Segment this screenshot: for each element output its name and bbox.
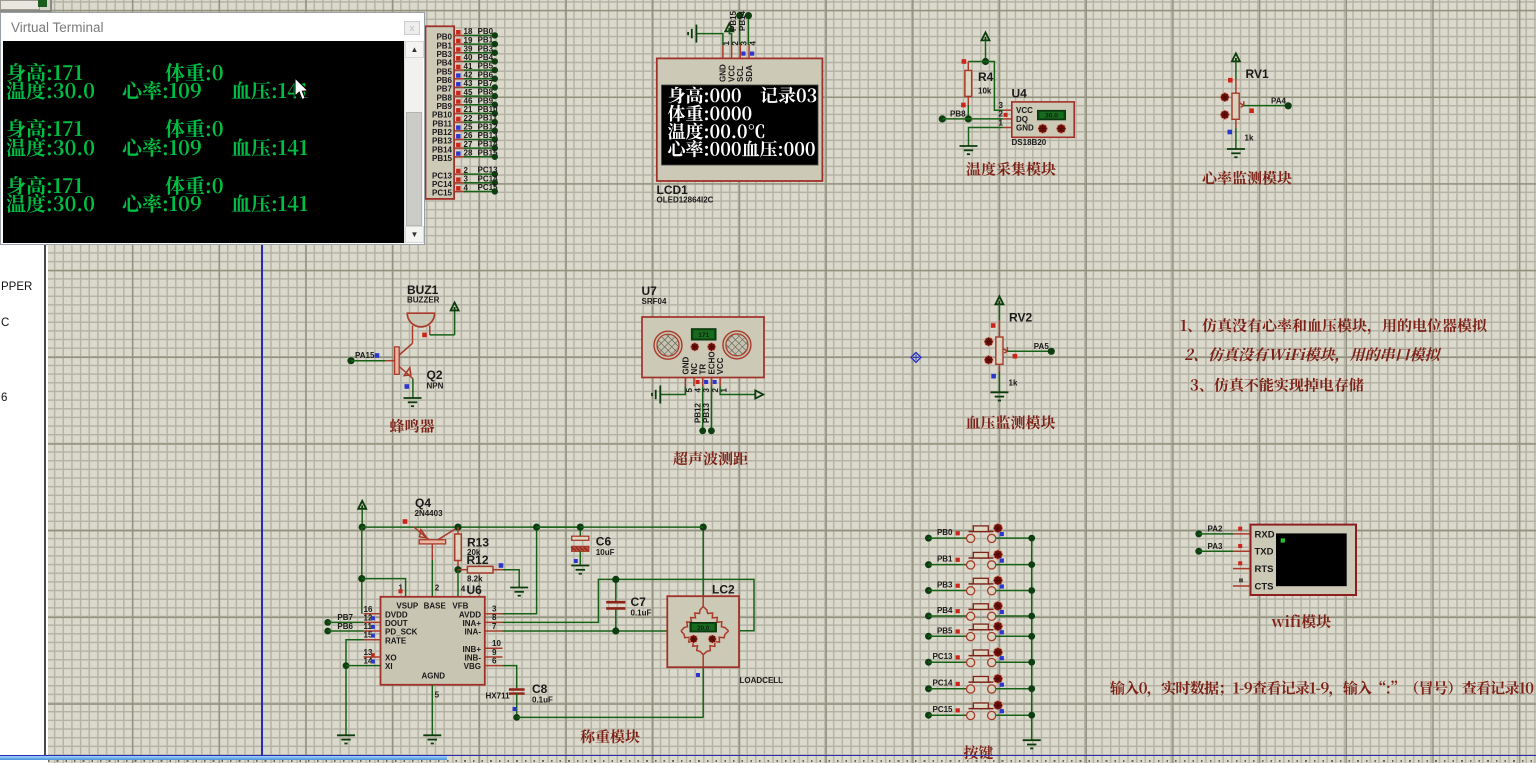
svg-text:RTS: RTS — [1255, 564, 1274, 575]
LCD1 pin 3 SCL — [736, 41, 749, 83]
svg-text:PB11: PB11 — [432, 119, 452, 128]
svg-text:10: 10 — [492, 639, 501, 648]
U6 pin16 DVDD — [364, 605, 381, 614]
svg-text:DVDD: DVDD — [385, 610, 408, 619]
svg-text:PB13: PB13 — [432, 137, 453, 146]
U6 pin13 XO — [364, 648, 381, 657]
capacitor C8 — [509, 682, 553, 717]
svg-text:心率监测模块: 心率监测模块 — [1202, 168, 1292, 189]
U6 pin9 INB- — [485, 648, 503, 657]
svg-text:PB5: PB5 — [478, 62, 494, 71]
blue indicator LC2 — [696, 673, 700, 677]
svg-text:蜂鸣器: 蜂鸣器 — [390, 416, 435, 437]
wire rail to R4 top — [968, 61, 985, 63]
dotted grid strip — [48, 760, 1536, 762]
svg-text:RV1: RV1 — [1246, 67, 1269, 81]
svg-text:PC14: PC14 — [932, 679, 953, 688]
U6 pin12 DOUT PB7 — [324, 613, 380, 626]
wire PB8 — [939, 110, 1003, 123]
svg-text:BASE: BASE — [424, 601, 447, 610]
svg-text:PC14: PC14 — [432, 180, 453, 189]
terminal screen — [3, 41, 406, 243]
svg-text:20.0: 20.0 — [697, 625, 710, 632]
svg-text:VBG: VBG — [464, 662, 481, 671]
svg-text:TXD: TXD — [1255, 547, 1274, 558]
U6 pin3 AVDD — [485, 527, 537, 614]
LCD1 reference label — [657, 183, 714, 205]
svg-text:VSUP: VSUP — [396, 601, 418, 610]
ground R12 — [510, 588, 528, 596]
svg-text:PB10: PB10 — [432, 111, 453, 120]
U7 knob left — [691, 343, 699, 351]
svg-text:5: 5 — [435, 691, 440, 700]
svg-text:PB3: PB3 — [478, 44, 494, 53]
ground RV1 — [1227, 149, 1245, 157]
resistor R12 — [458, 553, 503, 584]
svg-text:PA15: PA15 — [355, 351, 375, 360]
close button — [404, 21, 420, 35]
svg-text:记录03: 记录03 — [760, 82, 817, 108]
blue indicator U7 TR — [704, 380, 708, 384]
svg-text:2N4403: 2N4403 — [415, 509, 444, 518]
svg-text:0.1uF: 0.1uF — [532, 696, 553, 705]
U7 SRF04 body — [642, 317, 764, 378]
U6 pin10 INB+ — [485, 639, 503, 649]
svg-text:GND: GND — [1016, 124, 1034, 133]
svg-text:INA-: INA- — [465, 628, 482, 637]
svg-text:ECHO: ECHO — [707, 351, 716, 374]
svg-text:PB0: PB0 — [436, 33, 452, 42]
svg-text:PB8: PB8 — [478, 88, 494, 97]
RV2 adjust knob down — [984, 356, 993, 365]
svg-text:心率:000血压:000: 心率:000血压:000 — [668, 136, 816, 162]
transistor Q4 2N4403 — [414, 496, 458, 544]
blue indicator C8 — [513, 707, 517, 711]
note 2 — [1184, 344, 1442, 365]
ground buzzer — [404, 398, 422, 406]
svg-text:PB7: PB7 — [436, 85, 452, 94]
svg-text:AGND: AGND — [422, 672, 446, 681]
svg-text:HX711: HX711 — [486, 692, 511, 701]
pin 45 / net PB8 of P1 — [436, 88, 498, 103]
pin 43 / net PB7 of P1 — [436, 79, 498, 94]
label buzzer — [390, 416, 435, 437]
pin 4 / net PC15 of P1 — [432, 183, 498, 198]
svg-text:4: 4 — [461, 585, 466, 594]
U6 HX711 body — [381, 597, 485, 685]
svg-text:BUZZER: BUZZER — [407, 296, 440, 305]
svg-text:PB4: PB4 — [937, 606, 953, 615]
svg-text:DS18B20: DS18B20 — [1012, 138, 1047, 147]
svg-text:R4: R4 — [978, 70, 994, 84]
svg-text:NC: NC — [690, 363, 699, 375]
svg-text:PB9: PB9 — [478, 96, 494, 105]
sheet bottom border — [0, 755, 1536, 757]
svg-text:PB6: PB6 — [337, 622, 353, 631]
U6 pin14 XI — [343, 657, 381, 669]
U7 pin 3 TR — [699, 364, 712, 393]
wire Q4 base to U6 — [432, 544, 440, 597]
red indicator VSUP — [399, 589, 403, 593]
svg-text:INB+: INB+ — [463, 645, 482, 654]
keypad right rail — [1031, 538, 1033, 740]
svg-text:Q2: Q2 — [427, 368, 443, 382]
IC P1 header body (partial, left edge) — [426, 26, 455, 199]
top-left window fragment — [0, 0, 52, 12]
svg-text:PB15: PB15 — [729, 10, 738, 31]
wire U4 GND to ground — [969, 128, 1003, 147]
svg-text:PB7: PB7 — [478, 79, 494, 88]
scrollbar — [404, 41, 423, 243]
potentiometer RV1 — [1232, 67, 1269, 143]
svg-text:C7: C7 — [631, 595, 647, 609]
potentiometer RV2 — [996, 311, 1033, 388]
svg-text:PB12: PB12 — [693, 402, 702, 423]
wire R12 to ground — [503, 570, 520, 588]
U7 left transducer — [654, 331, 682, 359]
pin CTS stub — [1233, 585, 1251, 587]
svg-text:VCC: VCC — [716, 357, 725, 374]
left object selector panel — [0, 245, 46, 755]
svg-text:4: 4 — [748, 41, 757, 46]
wire rail to LC2 — [580, 526, 703, 528]
pin 28 / net PB15 of P1 — [432, 148, 498, 163]
svg-text:30.0: 30.0 — [1045, 113, 1058, 120]
U4 labels — [1012, 87, 1047, 148]
node junction VCC rail — [982, 58, 989, 65]
ground keypad — [1023, 740, 1041, 748]
node AVDD rail — [533, 524, 540, 531]
wire PA3 — [1195, 542, 1250, 555]
svg-text:2: 2 — [711, 388, 720, 393]
U7 pin 2 ECHO — [707, 351, 720, 392]
svg-text:PB6: PB6 — [478, 70, 494, 79]
U7 pin 1 VCC — [716, 357, 729, 392]
LCD1 pin 2 VCC — [727, 41, 740, 83]
horizontal scrollbar highlight — [0, 756, 447, 760]
svg-text:RATE: RATE — [385, 636, 407, 645]
ground (rotated) at LCD1 — [688, 25, 696, 43]
sheet origin marker — [911, 352, 921, 362]
svg-text:C8: C8 — [532, 682, 548, 696]
red indicator RTS — [1238, 561, 1242, 565]
wire PB13 to U7 ECHO — [702, 386, 715, 434]
red indicator R4 top — [962, 59, 967, 64]
loadcell LC2 body — [667, 596, 739, 667]
svg-text:GND: GND — [719, 64, 728, 82]
power arrow (temp module) — [982, 32, 990, 61]
BUZ1 labels — [407, 283, 440, 305]
svg-text:AVDD: AVDD — [459, 610, 481, 619]
svg-text:PB12: PB12 — [432, 128, 453, 137]
push button PB0 — [925, 524, 1035, 543]
svg-text:PD_SCK: PD_SCK — [385, 628, 418, 637]
wire PB14 to LCD1 SDA — [738, 10, 752, 45]
svg-text:PB1: PB1 — [436, 41, 452, 50]
blue indicator U7 ECHO — [713, 380, 717, 384]
U7 display — [691, 329, 716, 340]
svg-text:GND: GND — [681, 357, 690, 375]
push button PB1 — [925, 550, 1035, 569]
svg-text:OLED12864I2C: OLED12864I2C — [657, 196, 714, 205]
ground RATE — [337, 735, 355, 743]
svg-text:VCC: VCC — [727, 65, 736, 82]
pin 40 / net PB4 of P1 — [436, 53, 498, 68]
LC2 knob left — [690, 635, 698, 643]
note 3 — [1190, 375, 1364, 396]
svg-text:3: 3 — [702, 388, 711, 393]
blue indicator Q2 emitter — [405, 384, 410, 389]
svg-text:5: 5 — [685, 388, 694, 393]
U4 DS18B20 body — [1012, 102, 1074, 137]
svg-text:1: 1 — [999, 118, 1004, 127]
wire LCD1 GND to ground symbol — [697, 34, 723, 45]
LC2 labels — [712, 583, 783, 686]
label keypad — [964, 742, 994, 763]
svg-text:PB0: PB0 — [937, 528, 953, 537]
pin 19 / net PB1 of P1 — [436, 36, 498, 51]
pin 2 / net PC13 of P1 — [432, 166, 498, 181]
node VSUP branch — [358, 575, 365, 582]
wire RV2 wiper PA5 — [1007, 342, 1055, 355]
LCD1 pin 1 GND — [719, 41, 732, 83]
svg-text:VCC: VCC — [1016, 106, 1033, 115]
RV1 adjust knob up — [1220, 93, 1229, 102]
blue indicator R12 — [499, 563, 504, 568]
svg-text:2: 2 — [435, 584, 440, 593]
U4 pin stubs — [999, 101, 1012, 128]
label ultrasonic — [673, 448, 748, 469]
svg-text:VFB: VFB — [452, 601, 468, 610]
svg-text:称重模块: 称重模块 — [580, 726, 640, 747]
svg-text:wifi模块: wifi模块 — [1271, 611, 1332, 632]
pin 27 / net PB14 of P1 — [432, 140, 498, 155]
svg-text:171: 171 — [698, 332, 709, 339]
wire LC2 top — [702, 527, 704, 596]
ground RV2 — [990, 392, 1008, 400]
red indicator PA3 — [1238, 544, 1242, 548]
wire buzzer to power — [430, 311, 455, 335]
wire VSUP — [362, 579, 406, 597]
node C8 bottom — [513, 714, 520, 721]
U6 ref label — [467, 583, 483, 597]
red indicator U4 pin2 — [1004, 113, 1008, 117]
wifi terminal body — [1251, 525, 1357, 595]
svg-text:PB14: PB14 — [738, 10, 747, 31]
svg-text:超声波测距: 超声波测距 — [673, 448, 748, 469]
svg-text:2、仿真没有WiFi模块，用的串口模拟: 2、仿真没有WiFi模块，用的串口模拟 — [1184, 344, 1442, 365]
svg-text:输入0，实时数据；1-9查看记录1-9，输入“:”（冒号）查: 输入0，实时数据；1-9查看记录1-9，输入“:”（冒号）查看记录10 — [1110, 678, 1534, 699]
wire PA15 to Q2 base — [347, 351, 394, 364]
pin 22 / net PB11 of P1 — [432, 114, 498, 129]
red indicator RV1 wiper — [1249, 108, 1254, 113]
label temperature module — [966, 159, 1056, 180]
svg-text:PA4: PA4 — [1271, 96, 1287, 105]
blue indicator pin4 — [750, 52, 754, 56]
LCD1 pin 4 SDA — [745, 41, 758, 83]
pin 21 / net PB10 of P1 — [432, 105, 498, 120]
label heart-rate module — [1202, 168, 1292, 189]
wire RV1 wiper PA4 — [1244, 96, 1292, 109]
svg-text:PA5: PA5 — [1034, 342, 1050, 351]
wire U7 GND to ground — [661, 386, 685, 394]
U6 pin11 PD_SCK PB6 — [324, 622, 380, 635]
red indicator buzzer — [422, 333, 427, 338]
svg-text:3: 3 — [999, 101, 1004, 110]
Virtual Terminal window — [0, 12, 425, 245]
svg-text:SDA: SDA — [745, 65, 754, 82]
red indicator U7 NC — [696, 380, 700, 384]
node C6 rail — [577, 524, 584, 531]
svg-text:RXD: RXD — [1255, 529, 1275, 540]
blue indicator RV2 bottom — [991, 374, 996, 379]
U4 adjust knob down — [1057, 124, 1066, 133]
pin 41 / net PB5 of P1 — [436, 62, 498, 77]
sheet left border line — [261, 245, 263, 755]
svg-text:PB5: PB5 — [937, 626, 953, 635]
U7 right transducer — [723, 331, 751, 359]
pin 39 / net PB3 of P1 — [436, 44, 498, 59]
svg-text:PB3: PB3 — [436, 50, 452, 59]
pin RTS stub — [1233, 568, 1251, 570]
indicator CTS — [1239, 578, 1243, 582]
wire LC2 bottom — [517, 667, 704, 717]
capacitor C6 — [572, 527, 615, 565]
blue indicator C6 — [574, 559, 578, 563]
LC2 knob right — [708, 635, 716, 643]
red indicator RV1 top — [1228, 78, 1233, 83]
wire U7 VCC to power — [720, 386, 755, 394]
svg-text:1: 1 — [720, 388, 729, 393]
svg-text:Q4: Q4 — [415, 496, 431, 510]
svg-text:PB1: PB1 — [937, 555, 953, 564]
RV1 wiper arrow — [1240, 101, 1244, 107]
svg-text:10k: 10k — [978, 87, 992, 96]
svg-text:PB15: PB15 — [432, 154, 453, 163]
node Q4 collector — [454, 524, 461, 531]
LC2 display — [690, 623, 716, 632]
node C7 bottom — [612, 627, 619, 634]
wire Q2 emitter to ground — [412, 379, 414, 398]
capacitor C7 — [606, 579, 651, 631]
svg-text:PB14: PB14 — [432, 145, 453, 154]
pin 18 / net PB0 of P1 — [436, 27, 498, 42]
RV2 adjust knob up — [984, 337, 993, 346]
svg-text:U7: U7 — [642, 284, 658, 298]
wire rail mid — [537, 526, 581, 528]
svg-text:PA3: PA3 — [1208, 542, 1224, 551]
LC2 bridge resistors — [681, 596, 729, 667]
resistor R4 — [965, 62, 994, 106]
U7 labels — [642, 284, 667, 306]
ground (temp module) — [960, 146, 978, 154]
wire PA2 — [1195, 525, 1250, 538]
pin 42 / net PB6 of P1 — [436, 70, 498, 85]
svg-text:PB8: PB8 — [950, 110, 966, 119]
svg-text:温度采集模块: 温度采集模块 — [966, 159, 1056, 180]
ground C6 — [571, 566, 589, 574]
svg-text:LC2: LC2 — [712, 583, 735, 597]
U7 knob right — [708, 343, 716, 351]
svg-text:PB4: PB4 — [478, 53, 494, 62]
pin 46 / net PB9 of P1 — [436, 96, 498, 111]
svg-text:1k: 1k — [1245, 134, 1254, 143]
U6 pin15 RATE — [346, 631, 381, 735]
U6 pin8 INA+ — [485, 579, 754, 630]
node C7 top — [612, 576, 619, 583]
power arrow RV2 — [995, 296, 1003, 320]
svg-text:CTS: CTS — [1255, 581, 1274, 592]
red indicator PA2 — [1238, 527, 1242, 531]
svg-text:R12: R12 — [467, 553, 489, 567]
U6 pin6 VBG — [485, 656, 517, 688]
svg-text:1k: 1k — [1009, 379, 1018, 388]
pin 26 / net PB13 of P1 — [432, 131, 498, 146]
push button PC13 — [925, 648, 1035, 667]
buzzer BUZ1 — [407, 313, 434, 327]
node rail left — [359, 524, 366, 531]
push button PB3 — [925, 576, 1035, 595]
svg-text:SCL: SCL — [736, 66, 745, 82]
svg-text:PC15: PC15 — [932, 705, 953, 714]
wire VCC to U4 pin3 — [986, 62, 1003, 111]
transistor Q2 — [395, 326, 444, 391]
power arrow right U7 — [755, 391, 763, 399]
pin 25 / net PB12 of P1 — [432, 122, 498, 137]
svg-text:PB4: PB4 — [436, 59, 452, 68]
wire VFB — [458, 570, 466, 597]
U6 pin5 AGND — [432, 685, 439, 735]
svg-text:U6: U6 — [467, 583, 483, 597]
LCD1 module body — [657, 58, 823, 181]
svg-text:PB13: PB13 — [702, 402, 711, 423]
red indicator R4 bottom — [961, 103, 966, 108]
power arrow RV1 — [1232, 53, 1240, 79]
blue indicator RV1 bottom — [1228, 130, 1233, 135]
wire rail down to VSUP — [361, 527, 363, 614]
node LC2 rail — [700, 524, 707, 531]
svg-text:NPN: NPN — [427, 382, 444, 391]
U6 pin7 INA- — [485, 622, 681, 631]
mouse cursor — [293, 77, 315, 103]
wire RV2 to ground — [998, 372, 1000, 392]
power arrow weighing — [358, 501, 366, 527]
ground (rotated) U7 — [652, 386, 660, 404]
push button PC14 — [925, 674, 1035, 693]
wire PB12 to U7 TR — [693, 386, 706, 434]
U6 HX711 sublabel — [486, 692, 511, 701]
svg-text:4: 4 — [694, 388, 703, 393]
svg-text:PC13: PC13 — [932, 652, 953, 661]
svg-text:3、仿真不能实现掉电存储: 3、仿真不能实现掉电存储 — [1190, 375, 1364, 396]
svg-text:PC13: PC13 — [432, 171, 453, 180]
RV1 adjust knob down — [1220, 110, 1229, 119]
wire RV1 to ground — [1235, 128, 1237, 149]
label wifi module — [1271, 611, 1332, 632]
svg-text:PB3: PB3 — [937, 581, 953, 590]
svg-text:1、仿真没有心率和血压模块，用的电位器模拟: 1、仿真没有心率和血压模块，用的电位器模拟 — [1180, 315, 1488, 336]
svg-text:PB5: PB5 — [436, 67, 452, 76]
svg-text:3: 3 — [740, 41, 749, 46]
pin 3 / net PC14 of P1 — [432, 174, 498, 189]
svg-text:10uF: 10uF — [596, 548, 615, 557]
svg-text:PB8: PB8 — [436, 93, 452, 102]
red indicator RV2 wiper — [1013, 354, 1018, 359]
svg-text:PC15: PC15 — [432, 189, 453, 198]
svg-text:7: 7 — [492, 622, 497, 631]
push button PB4 — [925, 601, 1035, 620]
RV2 wiper arrow — [1003, 347, 1007, 353]
